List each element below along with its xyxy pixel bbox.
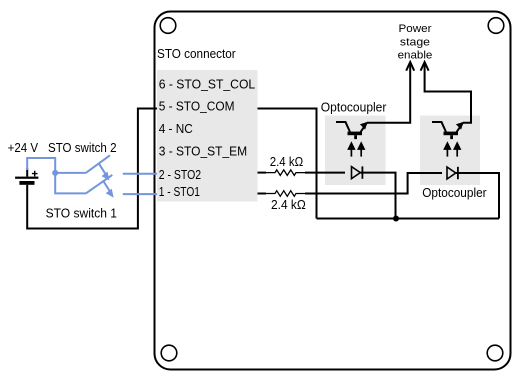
svg-text:4 - NC: 4 - NC bbox=[159, 121, 193, 136]
svg-text:3 - STO_ST_EM: 3 - STO_ST_EM bbox=[159, 143, 248, 158]
svg-text:STO switch 2: STO switch 2 bbox=[48, 140, 117, 155]
wire STO switch 2 to pin 2 (blue) bbox=[123, 173, 157, 175]
wire junction down to STO switch 1 contact bbox=[55, 173, 86, 194]
optocoupler U2 body bbox=[420, 116, 480, 186]
LED D1 (optocoupler 1 input) bbox=[352, 166, 363, 178]
light arrows into Q1 bbox=[347, 141, 365, 156]
arrowhead power stage enable (right) bbox=[421, 62, 429, 71]
wire pin 5 STO_COM to LED return rail bbox=[258, 109, 317, 219]
wire battery negative to STO_COM return bbox=[27, 109, 157, 229]
LED D2 (optocoupler 2 input) bbox=[447, 167, 458, 179]
switch STO switch 1 (blade + actuation arrow) bbox=[86, 175, 114, 198]
wire junction to STO switch 2 contact bbox=[55, 172, 86, 174]
svg-text:STO switch 1: STO switch 1 bbox=[46, 206, 117, 221]
svg-text:2.4 kΩ: 2.4 kΩ bbox=[270, 154, 304, 169]
phototransistor Q2 bbox=[432, 122, 464, 139]
junction on return rail bbox=[393, 216, 399, 222]
svg-text:2.4 kΩ: 2.4 kΩ bbox=[271, 197, 306, 212]
wire resistor R1 to LED D1 bbox=[305, 172, 345, 174]
mounting hole top-left bbox=[160, 18, 176, 34]
enclosure outline (drive module) bbox=[155, 12, 511, 370]
wire battery positive to switch common (blue) bbox=[27, 158, 55, 173]
svg-text:STO connector: STO connector bbox=[157, 46, 236, 61]
svg-text:6 - STO_ST_COL: 6 - STO_ST_COL bbox=[159, 77, 256, 92]
mounting hole bottom-left bbox=[161, 345, 177, 361]
svg-text:2 - STO2: 2 - STO2 bbox=[159, 167, 201, 182]
wire pin 2 to resistor R1 bbox=[258, 172, 267, 174]
svg-text:5 - STO_COM: 5 - STO_COM bbox=[159, 99, 235, 114]
resistor R1 2.4 kOhm bbox=[266, 170, 305, 176]
optocoupler U1 body bbox=[325, 116, 386, 186]
svg-text:Optocoupler: Optocoupler bbox=[422, 185, 487, 200]
arrowhead power stage enable (left) bbox=[406, 62, 414, 71]
wire LED D2 cathode to return rail bbox=[456, 173, 499, 219]
phototransistor Q1 bbox=[336, 122, 368, 139]
svg-text:1 - STO1: 1 - STO1 bbox=[159, 184, 200, 199]
svg-text:+24 V: +24 V bbox=[8, 140, 39, 155]
wire pin 1 to resistor R2 bbox=[258, 193, 267, 195]
STO connector pin block J1 bbox=[157, 70, 258, 202]
switch STO switch 2 (blade + actuation arrow) bbox=[86, 155, 110, 180]
svg-text:stage: stage bbox=[400, 36, 430, 48]
wire LED return rail (bottom) bbox=[317, 218, 500, 220]
svg-text:Power: Power bbox=[399, 23, 432, 35]
svg-text:Optocoupler: Optocoupler bbox=[321, 99, 387, 114]
light arrows into Q2 bbox=[443, 141, 461, 156]
resistor R2 2.4 kOhm bbox=[266, 191, 305, 197]
svg-text:enable: enable bbox=[398, 50, 433, 62]
wire resistor R2 to LED D2 bbox=[305, 173, 442, 194]
mounting hole bottom-right bbox=[487, 345, 503, 361]
junction at switch common bbox=[52, 170, 58, 176]
mounting hole top-right bbox=[488, 18, 504, 34]
wire Q2 emitter to power stage enable arrow bbox=[425, 63, 471, 123]
wire Q1 emitter to power stage enable arrow bbox=[367, 63, 410, 123]
battery BT1 (+24 V supply) bbox=[15, 168, 38, 185]
wire LED D1 cathode to return rail bbox=[361, 173, 396, 219]
wire STO switch 1 to pin 1 (blue) bbox=[123, 193, 157, 195]
